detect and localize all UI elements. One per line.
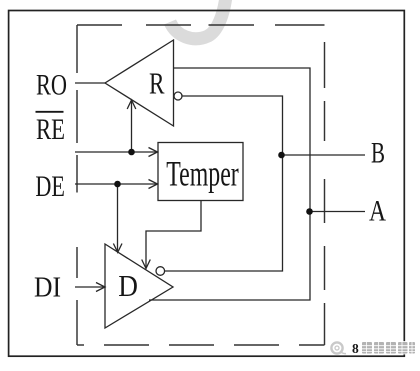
svg-text:DE: DE (35, 170, 65, 203)
svg-text:B: B (371, 137, 385, 170)
driver triangle U-D (105, 244, 173, 328)
arrowhead into D input (96, 283, 105, 292)
Temper block box (158, 143, 243, 201)
svg-text:RE: RE (36, 114, 65, 146)
overline of RE (36, 111, 64, 113)
watermark arc (top) (170, 0, 226, 39)
arrowhead down into D (113, 244, 122, 253)
svg-text:R: R (149, 66, 165, 100)
wire stub to pin B (282, 154, 366, 156)
arrowhead into Temper bottom input (149, 180, 158, 189)
svg-text:DI: DI (34, 273, 61, 304)
svg-text:Temper: Temper (166, 153, 238, 193)
right edge dashes (324, 42, 326, 88)
inversion bubble on D output (156, 267, 165, 276)
wire net A: R input to vertical bus (149, 68, 310, 300)
wire net B: R bubble input to vertical bus (165, 96, 283, 271)
inversion bubble on R input (174, 92, 182, 100)
wire DE net to Temper (75, 183, 158, 185)
receiver triangle U-R (105, 40, 174, 126)
junction node on RE wire (128, 149, 135, 156)
svg-text:D: D (118, 269, 138, 303)
svg-text:RO: RO (36, 69, 67, 101)
svg-text:A: A (369, 195, 386, 228)
watermark logo swirl (bottom right) (331, 341, 414, 355)
dashed IC boundary (77, 25, 325, 345)
left edge dashes (76, 25, 78, 73)
wire Temper output to D (146, 201, 201, 268)
junction node B (278, 152, 285, 159)
wire RE net to Temper (75, 151, 158, 153)
top edge dashes (77, 24, 122, 26)
wire DE branch down to D enable (117, 184, 119, 251)
junction node A (306, 208, 313, 215)
wire stub to pin A (310, 211, 365, 213)
wire RE branch up to R enable (131, 101, 133, 152)
wire RO to receiver tip (75, 82, 105, 84)
wire DI input (75, 286, 104, 288)
arrowhead into Temper top input (149, 148, 158, 157)
arrowhead up into R (127, 100, 136, 109)
junction node on DE wire (114, 181, 121, 188)
bottom edge dashes (77, 344, 84, 346)
arrowhead down into D from Temper (142, 260, 151, 269)
svg-text:8: 8 (352, 341, 359, 356)
